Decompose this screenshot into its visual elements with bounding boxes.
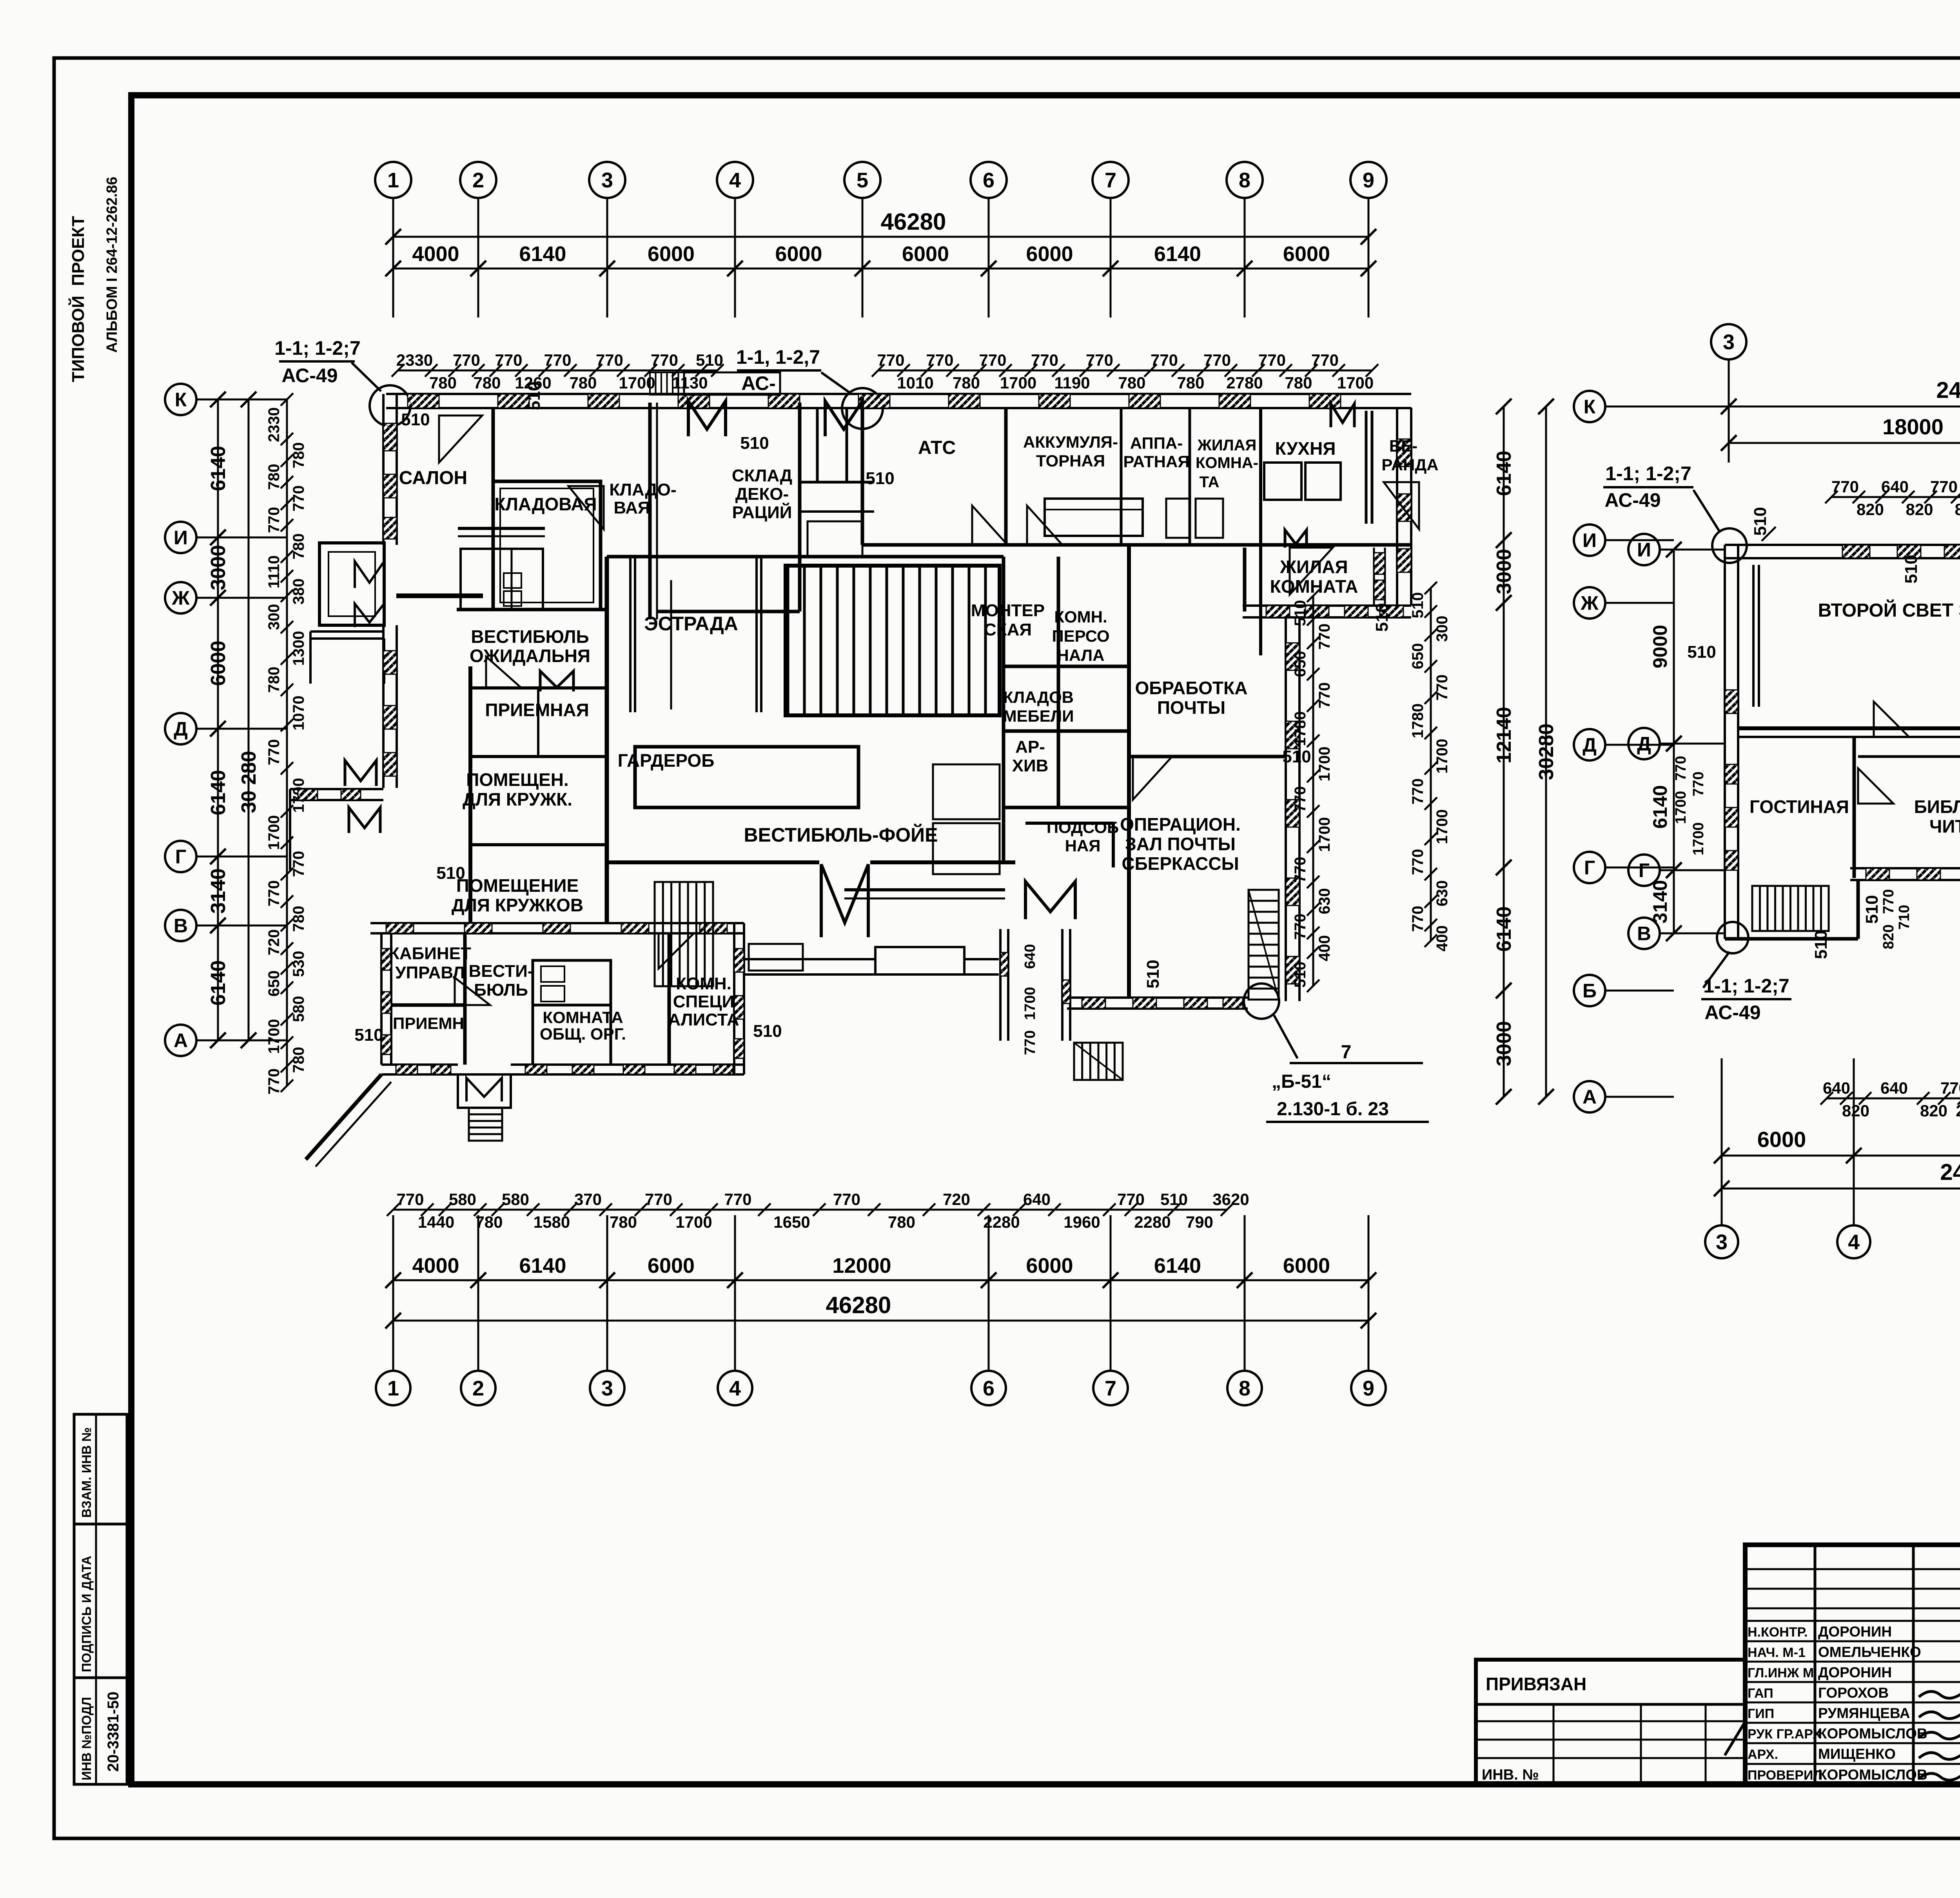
top small dim chain right group (878, 370, 1372, 372)
svg-text:510: 510 (1751, 507, 1770, 535)
svg-text:510: 510 (436, 864, 465, 883)
svg-text:1700: 1700 (1000, 374, 1036, 392)
svg-text:МОНТЕР: МОНТЕР (971, 601, 1045, 620)
foyer bench double line (844, 888, 1005, 891)
svg-text:820: 820 (1842, 1101, 1869, 1120)
svg-text:18000: 18000 (1882, 414, 1944, 439)
svg-text:1440: 1440 (418, 1213, 454, 1231)
corner circle axis5 (842, 388, 883, 429)
svg-text:780: 780 (473, 374, 501, 392)
svg-text:6140: 6140 (1154, 242, 1201, 266)
svg-text:„Б-51“: „Б-51“ (1272, 1071, 1331, 1092)
hall block border (786, 566, 1000, 715)
svg-text:6000: 6000 (207, 641, 230, 686)
svg-text:ПОМЕЩЕНИЕ: ПОМЕЩЕНИЕ (456, 875, 579, 896)
svg-text:630: 630 (1316, 888, 1333, 915)
svg-text:КАБИНЕТ: КАБИНЕТ (389, 944, 471, 963)
svg-text:1700: 1700 (1316, 747, 1333, 782)
stage top wall (607, 555, 1004, 559)
sklad right wall (798, 403, 802, 611)
svg-text:ЧИТАЛЬНЯ: ЧИТАЛЬНЯ (1929, 816, 1960, 836)
svg-text:770: 770 (265, 1069, 283, 1095)
svg-text:2: 2 (472, 169, 484, 192)
svg-text:2380: 2380 (1956, 1101, 1960, 1120)
svg-text:МИЩЕНКО: МИЩЕНКО (1818, 1746, 1896, 1762)
privyazan table (1476, 1660, 1745, 1784)
svg-text:1700: 1700 (1690, 822, 1707, 856)
svg-text:770: 770 (495, 351, 522, 369)
svg-text:3140: 3140 (1649, 880, 1671, 924)
svg-text:ТИПОВОЙ ПРОЕКТ: ТИПОВОЙ ПРОЕКТ (68, 216, 88, 382)
svg-text:ОБРАБОТКА: ОБРАБОТКА (1135, 678, 1248, 698)
svg-text:20-3381-50: 20-3381-50 (105, 1691, 122, 1772)
svg-text:780: 780 (610, 1213, 637, 1231)
left plan exterior left wall upper (382, 394, 385, 545)
svg-text:9: 9 (1363, 169, 1374, 192)
svg-text:НАЯ: НАЯ (1065, 836, 1101, 855)
dim 24000 (1729, 406, 1960, 408)
empty top rows (1745, 1568, 1960, 1570)
svg-text:6000: 6000 (775, 242, 822, 266)
grid letter circles left (165, 384, 196, 415)
svg-text:6140: 6140 (1154, 1254, 1201, 1277)
svg-text:СКАЯ: СКАЯ (984, 620, 1032, 639)
svg-text:770: 770 (290, 851, 307, 877)
svg-text:770: 770 (1940, 1079, 1960, 1097)
svg-text:770: 770 (453, 351, 480, 369)
svg-text:770: 770 (1673, 756, 1689, 780)
svg-text:3: 3 (1716, 1230, 1728, 1254)
wc fixtures (541, 966, 564, 982)
svg-text:БЮЛЬ: БЮЛЬ (474, 980, 528, 1000)
svg-text:ВТОРОЙ СВЕТ ЗАЛА: ВТОРОЙ СВЕТ ЗАЛА (1818, 599, 1960, 621)
svg-text:Г: Г (1639, 860, 1650, 882)
svg-text:630: 630 (1434, 880, 1451, 907)
left detailed chain (286, 399, 288, 1086)
svg-text:1700: 1700 (1337, 374, 1374, 392)
svg-text:4: 4 (729, 1377, 741, 1400)
right plan inner letter circles (1628, 534, 1660, 565)
right bottom 6000 18000 (1722, 1155, 1960, 1157)
svg-text:АРХ.: АРХ. (1748, 1747, 1778, 1762)
svg-text:ПРИЕМНАЯ: ПРИЕМНАЯ (485, 700, 589, 720)
svg-text:780: 780 (265, 667, 283, 693)
svg-text:ЖИЛАЯ: ЖИЛАЯ (1197, 437, 1257, 454)
svg-text:1960: 1960 (1063, 1213, 1100, 1231)
svg-text:АС-49: АС-49 (281, 365, 338, 386)
svg-text:510: 510 (1409, 592, 1426, 619)
bottom office block right wall (733, 923, 735, 1074)
svg-text:770: 770 (1022, 1030, 1038, 1055)
svg-text:650: 650 (265, 971, 283, 997)
svg-text:640: 640 (1881, 477, 1909, 496)
svg-text:640: 640 (1023, 1190, 1051, 1208)
svg-text:КЛАДО-: КЛАДО- (609, 480, 676, 499)
svg-text:1-1; 1-2;7: 1-1; 1-2;7 (1703, 975, 1789, 997)
svg-text:770: 770 (544, 351, 571, 369)
svg-text:790: 790 (1186, 1213, 1213, 1231)
svg-text:510: 510 (1902, 555, 1921, 583)
svg-text:6140: 6140 (1649, 785, 1671, 829)
room partitions D-G (1853, 737, 1856, 878)
svg-text:ПОЧТЫ: ПОЧТЫ (1157, 697, 1225, 718)
svg-text:780: 780 (1285, 374, 1312, 392)
svg-text:КОМН.: КОМН. (1054, 608, 1107, 626)
vestibule canopy (458, 527, 545, 530)
right rooms block (1002, 557, 1005, 862)
svg-text:1: 1 (387, 1377, 399, 1400)
bottom office block bottom wall (381, 1063, 458, 1066)
right wall lower (1285, 617, 1287, 1001)
vertical dim 30280 (248, 399, 250, 1040)
svg-text:2330: 2330 (265, 407, 283, 442)
svg-text:510: 510 (1687, 642, 1716, 662)
svg-text:770: 770 (877, 351, 904, 369)
svg-text:СПЕЦИ: СПЕЦИ (673, 992, 735, 1011)
svg-text:ИНВ №ПОДЛ: ИНВ №ПОДЛ (79, 1697, 94, 1780)
zal bottom wall (1738, 726, 1960, 730)
svg-text:6000: 6000 (648, 242, 695, 266)
accum platform (1045, 499, 1143, 536)
svg-text:510: 510 (866, 469, 894, 488)
svg-text:ГАРДЕРОБ: ГАРДЕРОБ (618, 750, 715, 771)
svg-text:АККУМУЛЯ-: АККУМУЛЯ- (1023, 433, 1118, 451)
ATS row bottom wall (862, 543, 1411, 547)
corner circle axis1 (370, 385, 410, 426)
svg-text:ОБЩ. ОРГ.: ОБЩ. ОРГ. (540, 1025, 626, 1043)
svg-text:770: 770 (1151, 351, 1178, 369)
svg-text:АЛИСТА: АЛИСТА (668, 1010, 739, 1029)
B-51 callout left (1244, 983, 1279, 1019)
svg-text:1070: 1070 (290, 696, 307, 731)
svg-text:4000: 4000 (412, 1254, 459, 1277)
svg-text:770: 770 (724, 1190, 751, 1208)
svg-text:1700: 1700 (1022, 987, 1038, 1020)
svg-text:ГИП: ГИП (1748, 1706, 1774, 1721)
left entry block (319, 543, 384, 625)
svg-text:770: 770 (926, 351, 953, 369)
svg-text:580: 580 (449, 1190, 476, 1208)
svg-text:720: 720 (265, 929, 283, 956)
kladovaya room (493, 481, 601, 610)
svg-text:770: 770 (1292, 857, 1309, 883)
svg-text:510: 510 (1811, 930, 1831, 959)
svg-text:1700: 1700 (1434, 739, 1451, 774)
svg-text:Г: Г (1584, 857, 1595, 879)
sanitary boxes (1166, 499, 1190, 538)
svg-text:3000: 3000 (1493, 549, 1515, 594)
bottom office block top wall (370, 922, 744, 924)
svg-text:6140: 6140 (519, 242, 566, 266)
svg-text:Б: Б (1583, 980, 1597, 1002)
svg-text:46280: 46280 (881, 209, 946, 235)
svg-text:ТА: ТА (1200, 474, 1220, 491)
svg-text:510: 510 (1282, 747, 1311, 766)
top row partitions (1004, 408, 1008, 545)
svg-text:8: 8 (1239, 1377, 1250, 1400)
svg-text:640: 640 (1823, 1079, 1850, 1097)
wc cluster foyer (933, 764, 1000, 819)
svg-text:770: 770 (1409, 778, 1426, 805)
svg-text:400: 400 (1434, 925, 1451, 952)
svg-text:НАЛА: НАЛА (1057, 646, 1105, 664)
svg-text:770: 770 (1203, 351, 1231, 369)
entry stair bottom (469, 1108, 502, 1141)
svg-text:ПРИЕМН: ПРИЕМН (393, 1014, 464, 1032)
dim 18000 6000 (1729, 442, 1960, 444)
svg-text:И: И (1583, 530, 1597, 552)
svg-text:ДЛЯ КРУЖКОВ: ДЛЯ КРУЖКОВ (452, 895, 583, 915)
svg-text:2.130-1 б. 23: 2.130-1 б. 23 (1277, 1099, 1389, 1120)
right plan bottom small chain (1827, 1098, 1960, 1100)
canopy diagonal (306, 1074, 381, 1159)
svg-text:510: 510 (696, 351, 723, 369)
svg-text:6000: 6000 (1757, 1127, 1806, 1152)
veranda column lower (1373, 548, 1375, 606)
svg-text:7: 7 (1105, 1377, 1116, 1400)
svg-text:510: 510 (753, 1022, 782, 1041)
svg-text:30 280: 30 280 (238, 751, 260, 813)
svg-text:1780: 1780 (1292, 711, 1309, 746)
svg-text:510: 510 (354, 1025, 383, 1045)
svg-text:ГОСТИНАЯ: ГОСТИНАЯ (1749, 797, 1849, 817)
svg-text:В: В (1637, 923, 1651, 945)
svg-text:Ж: Ж (171, 587, 190, 609)
hall floor stripes (787, 566, 789, 713)
svg-text:780: 780 (290, 533, 307, 560)
bottom office block left wall (380, 933, 383, 1065)
stair by club rooms (655, 882, 713, 986)
svg-text:Д: Д (1583, 734, 1597, 756)
svg-text:9000: 9000 (1649, 625, 1671, 668)
door flags left plan (439, 416, 482, 463)
svg-text:9: 9 (1363, 1377, 1374, 1400)
sanitary cluster (461, 549, 543, 610)
svg-text:1-1, 1-2,7: 1-1, 1-2,7 (736, 346, 820, 368)
svg-text:770: 770 (1690, 771, 1707, 796)
svg-text:ПЕРСО: ПЕРСО (1052, 627, 1109, 645)
svg-text:6140: 6140 (207, 960, 230, 1006)
svg-text:РУМЯНЦЕВА: РУМЯНЦЕВА (1818, 1705, 1910, 1721)
svg-text:ГАП: ГАП (1748, 1686, 1773, 1701)
svg-text:ДОРОНИН: ДОРОНИН (1818, 1664, 1892, 1680)
step wall under veranda (1243, 604, 1411, 607)
svg-text:1: 1 (387, 169, 399, 192)
svg-text:1010: 1010 (897, 374, 933, 392)
left porch lower canopy (290, 788, 383, 790)
svg-text:ДЛЯ КРУЖК.: ДЛЯ КРУЖК. (463, 789, 572, 809)
svg-text:8: 8 (1239, 169, 1250, 192)
svg-text:1190: 1190 (1054, 374, 1090, 392)
svg-text:720: 720 (943, 1190, 970, 1208)
svg-text:30280: 30280 (1535, 724, 1558, 780)
right side chain 1 left plan (1312, 596, 1314, 986)
svg-text:АР-: АР- (1015, 737, 1045, 757)
salon bottom wall (396, 593, 483, 598)
svg-text:Д: Д (174, 718, 188, 740)
svg-text:1650: 1650 (773, 1213, 810, 1231)
svg-text:ПРИВЯЗАН: ПРИВЯЗАН (1486, 1674, 1586, 1694)
svg-text:ЭСТРАДА: ЭСТРАДА (644, 613, 738, 635)
svg-text:510: 510 (740, 434, 769, 453)
bottom dim 46280 (393, 1320, 1368, 1322)
svg-text:770: 770 (596, 351, 623, 369)
svg-text:7: 7 (1341, 1042, 1352, 1063)
svg-text:И: И (1637, 539, 1651, 561)
svg-text:НАЧ. М-1: НАЧ. М-1 (1748, 1645, 1806, 1660)
bottom axis dim line (393, 1279, 1368, 1281)
svg-text:780: 780 (1177, 374, 1204, 392)
main entry zigzag big (821, 864, 868, 937)
svg-text:770: 770 (1930, 477, 1958, 496)
svg-text:ВАЯ: ВАЯ (614, 498, 650, 517)
svg-text:ПОДСОБ: ПОДСОБ (1047, 818, 1119, 836)
svg-text:770: 770 (833, 1190, 860, 1208)
svg-text:6000: 6000 (1026, 242, 1073, 266)
svg-text:780: 780 (569, 374, 597, 392)
svg-text:640: 640 (1880, 1079, 1908, 1097)
svg-text:АС-: АС- (741, 372, 776, 394)
svg-text:КЛАДОВ: КЛАДОВ (1003, 688, 1074, 706)
svg-text:770: 770 (1434, 675, 1451, 701)
svg-text:ДЕКО-: ДЕКО- (735, 484, 789, 504)
left plan exterior top wall (386, 393, 1411, 395)
svg-text:5: 5 (857, 169, 868, 192)
top protrusion stair (650, 372, 684, 395)
left wall segment 2 (382, 625, 385, 788)
entry vestibule bottom (458, 1074, 511, 1108)
svg-text:2: 2 (472, 1377, 484, 1400)
svg-text:510: 510 (1292, 962, 1309, 988)
stage inner thin line (670, 580, 672, 709)
svg-text:РУК ГР.АРХ: РУК ГР.АРХ (1748, 1727, 1822, 1742)
foyer south wall (609, 860, 819, 864)
title block outline (1745, 1545, 1960, 1784)
svg-text:510: 510 (401, 410, 430, 429)
vestibule rooms columns (468, 666, 472, 923)
svg-text:1780: 1780 (1409, 704, 1426, 739)
svg-text:820: 820 (1920, 1101, 1947, 1120)
svg-text:6140: 6140 (207, 446, 230, 491)
svg-text:МЕБЕЛИ: МЕБЕЛИ (1003, 707, 1074, 725)
zigzag marks top wall (688, 401, 726, 436)
svg-text:770: 770 (265, 507, 283, 533)
svg-text:640: 640 (1022, 944, 1038, 969)
svg-text:770: 770 (1831, 477, 1859, 496)
vertical dim chain letters (217, 399, 219, 1040)
svg-text:820: 820 (1857, 500, 1884, 519)
svg-text:780: 780 (953, 374, 980, 392)
svg-text:770: 770 (396, 1190, 424, 1208)
svg-text:650: 650 (1409, 643, 1426, 670)
svg-text:380: 380 (290, 579, 307, 605)
svg-text:530: 530 (290, 951, 307, 977)
svg-text:770: 770 (1117, 1190, 1145, 1208)
svg-text:770: 770 (979, 351, 1006, 369)
svg-text:2780: 2780 (1226, 374, 1263, 392)
svg-text:В: В (174, 915, 188, 937)
svg-text:А: А (174, 1030, 188, 1052)
svg-text:820: 820 (1955, 500, 1960, 519)
operations hall bottom wall (1067, 996, 1248, 999)
svg-text:3: 3 (601, 1377, 613, 1400)
svg-text:1700: 1700 (1673, 791, 1689, 824)
svg-text:КЛАДОВАЯ: КЛАДОВАЯ (494, 494, 597, 514)
svg-text:ПОМЕЩЕН.: ПОМЕЩЕН. (466, 769, 568, 790)
top small dim chain left group (398, 370, 717, 372)
svg-text:510: 510 (524, 381, 544, 410)
svg-text:А: А (1583, 1086, 1597, 1108)
svg-text:12140: 12140 (1493, 707, 1515, 764)
svg-text:ДОРОНИН: ДОРОНИН (1818, 1624, 1892, 1640)
kitchen units (1264, 463, 1301, 500)
svg-text:ТОРНАЯ: ТОРНАЯ (1036, 452, 1105, 470)
svg-text:770: 770 (651, 351, 678, 369)
wall klado-vaya double (648, 403, 652, 619)
svg-text:780: 780 (265, 464, 283, 490)
svg-text:ВЕСТИБЮЛЬ: ВЕСТИБЮЛЬ (471, 626, 589, 647)
svg-text:К: К (175, 389, 187, 411)
svg-text:4000: 4000 (412, 242, 459, 266)
svg-text:АТС: АТС (918, 437, 956, 458)
svg-text:6140: 6140 (1493, 451, 1515, 496)
svg-text:ПРОВЕРИЛ: ПРОВЕРИЛ (1748, 1768, 1822, 1783)
svg-text:780: 780 (888, 1213, 915, 1231)
svg-text:КОМНАТА: КОМНАТА (543, 1008, 623, 1027)
svg-text:1700: 1700 (1316, 817, 1333, 852)
svg-text:РАЦИЙ: РАЦИЙ (732, 502, 792, 522)
svg-text:510: 510 (1143, 960, 1163, 988)
svg-text:580: 580 (290, 996, 307, 1022)
G axis bottom wall (1850, 867, 1960, 869)
svg-text:300: 300 (265, 604, 283, 630)
bottom small dim chain (393, 1209, 1109, 1211)
svg-text:ЗАЛ ПОЧТЫ: ЗАЛ ПОЧТЫ (1125, 834, 1236, 854)
stair along right wall (1249, 890, 1279, 1000)
vertical passage (999, 929, 1002, 1041)
svg-text:КУХНЯ: КУХНЯ (1275, 438, 1336, 459)
svg-text:ВЕСТИ-: ВЕСТИ- (469, 962, 534, 981)
svg-text:ВЕ-: ВЕ- (1389, 437, 1417, 455)
svg-text:СКЛАД: СКЛАД (732, 466, 792, 485)
svg-text:ОПЕРАЦИОН.: ОПЕРАЦИОН. (1120, 814, 1241, 835)
svg-text:К: К (1584, 396, 1596, 418)
svg-text:ГЛ.ИНЖ М: ГЛ.ИНЖ М (1748, 1666, 1814, 1680)
svg-text:3000: 3000 (207, 545, 230, 590)
svg-text:770: 770 (1292, 786, 1309, 813)
svg-text:1-1; 1-2;7: 1-1; 1-2;7 (274, 337, 361, 359)
stair right plan interior (1752, 886, 1829, 931)
left plan right wall (veranda) (1396, 408, 1398, 606)
svg-text:КОМНАТА: КОМНАТА (1270, 576, 1358, 597)
svg-text:770: 770 (1311, 351, 1339, 369)
dim line 46280 top (393, 236, 1368, 238)
svg-text:12000: 12000 (832, 1254, 891, 1277)
svg-text:6140: 6140 (207, 770, 230, 815)
svg-text:АС-49: АС-49 (1604, 489, 1661, 511)
right side chain 2 left plan (1430, 588, 1432, 941)
right bottom 24000 (1722, 1188, 1960, 1190)
svg-text:РАНДА: РАНДА (1381, 455, 1438, 474)
svg-text:КОРОМЫСЛОВ: КОРОМЫСЛОВ (1818, 1767, 1927, 1783)
svg-text:510: 510 (1292, 600, 1309, 626)
svg-text:ХИВ: ХИВ (1012, 756, 1049, 775)
svg-text:РАТНАЯ: РАТНАЯ (1123, 452, 1189, 471)
svg-text:710: 710 (1896, 905, 1913, 929)
bottom grid circles (376, 1371, 410, 1405)
garderob box (635, 747, 858, 807)
grid circles 1-9 top (375, 162, 411, 198)
